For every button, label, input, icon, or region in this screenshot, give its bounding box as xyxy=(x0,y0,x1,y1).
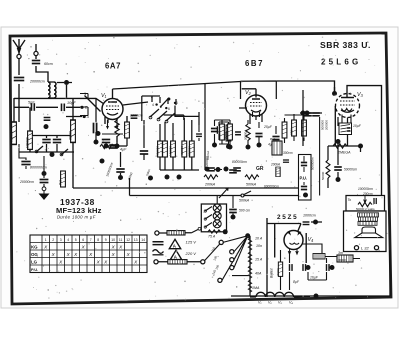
svg-text:2MEGA: 2MEGA xyxy=(337,151,351,155)
svg-text:800000cm: 800000cm xyxy=(232,160,247,164)
svg-text:4: 4 xyxy=(67,238,69,242)
svg-text:6B7: 6B7 xyxy=(245,59,264,68)
svg-text:10000: 10000 xyxy=(226,130,230,139)
svg-text:Ballast: Ballast xyxy=(270,268,274,278)
svg-text:V₁: V₁ xyxy=(101,93,107,99)
svg-text:14: 14 xyxy=(141,238,145,242)
svg-text:11: 11 xyxy=(119,238,123,242)
svg-text:6: 6 xyxy=(176,101,178,105)
svg-text:50000cm: 50000cm xyxy=(344,168,357,172)
svg-text:3m: 3m xyxy=(338,251,343,255)
svg-text:25Z5: 25Z5 xyxy=(277,214,298,221)
svg-text:13: 13 xyxy=(134,238,138,242)
svg-text:1MA: 1MA xyxy=(252,286,260,290)
svg-text:100000: 100000 xyxy=(26,137,30,148)
svg-text:16µF: 16µF xyxy=(310,276,319,280)
svg-text:9: 9 xyxy=(105,238,107,242)
svg-text:V₃: V₃ xyxy=(357,92,364,98)
svg-text:V₄: V₄ xyxy=(308,237,314,243)
svg-text:10000: 10000 xyxy=(218,130,222,139)
svg-text:P.U.: P.U. xyxy=(300,176,308,181)
svg-text:V₃: V₃ xyxy=(278,301,282,305)
svg-text:220 V: 220 V xyxy=(185,251,197,256)
svg-text:12: 12 xyxy=(126,238,130,242)
svg-text:LG: LG xyxy=(31,260,38,265)
svg-text:5: 5 xyxy=(75,238,77,242)
svg-text:3: 3 xyxy=(60,238,62,242)
svg-text:300A: 300A xyxy=(290,128,294,135)
svg-text:Durée 1000 m µF: Durée 1000 m µF xyxy=(57,215,96,220)
svg-text:300000: 300000 xyxy=(10,131,14,142)
svg-text:1000cm: 1000cm xyxy=(303,214,316,218)
svg-text:200000: 200000 xyxy=(325,120,329,130)
svg-text:L 32: L 32 xyxy=(361,246,369,251)
svg-text:10pF: 10pF xyxy=(67,101,76,105)
svg-text:To: To xyxy=(348,198,352,202)
svg-text:10µF: 10µF xyxy=(353,124,362,128)
svg-text:200cm: 200cm xyxy=(362,192,373,196)
svg-text:500 cm: 500 cm xyxy=(239,209,250,213)
svg-text:100000: 100000 xyxy=(169,146,173,156)
svg-text:V₂: V₂ xyxy=(245,90,252,96)
svg-text:400000: 400000 xyxy=(156,146,160,156)
svg-text:20000cm: 20000cm xyxy=(19,180,34,184)
svg-text:Asimut: Asimut xyxy=(206,151,210,160)
svg-text:6A7: 6A7 xyxy=(105,62,121,71)
svg-text:8: 8 xyxy=(97,238,99,242)
svg-text:10n: 10n xyxy=(256,244,262,248)
svg-text:10 A: 10 A xyxy=(255,237,263,241)
svg-text:30000: 30000 xyxy=(338,258,346,262)
svg-text:500000m: 500000m xyxy=(311,157,315,170)
svg-text:5pF: 5pF xyxy=(28,101,35,105)
svg-text:15 A: 15 A xyxy=(255,258,263,262)
svg-text:500kA: 500kA xyxy=(246,183,257,187)
svg-text:50000: 50000 xyxy=(321,171,325,180)
svg-text:40A: 40A xyxy=(255,272,262,276)
svg-text:6: 6 xyxy=(82,238,84,242)
svg-text:V₂: V₂ xyxy=(268,301,272,305)
svg-text:SBR 383 U.: SBR 383 U. xyxy=(320,40,371,50)
svg-text:20000: 20000 xyxy=(276,268,280,276)
svg-text:75 A: 75 A xyxy=(208,235,216,239)
svg-text:60cm: 60cm xyxy=(44,62,53,66)
svg-text:4µF: 4µF xyxy=(120,148,127,152)
svg-text:20000A: 20000A xyxy=(244,130,248,140)
svg-text:2: 2 xyxy=(52,238,54,242)
svg-text:1: 1 xyxy=(45,238,47,242)
svg-text:10: 10 xyxy=(111,238,115,242)
svg-text:300000: 300000 xyxy=(187,146,191,156)
svg-text:125 V: 125 V xyxy=(186,240,197,245)
svg-text:7: 7 xyxy=(90,238,92,242)
svg-text:200kA: 200kA xyxy=(270,163,280,167)
svg-text:200kA: 200kA xyxy=(204,183,216,187)
svg-text:25L6G: 25L6G xyxy=(321,58,361,67)
svg-text:500kA: 500kA xyxy=(239,199,250,203)
svg-text:V₄: V₄ xyxy=(289,301,293,305)
svg-text:1200cm: 1200cm xyxy=(130,114,143,118)
svg-text:100000cm: 100000cm xyxy=(358,187,373,191)
svg-text:Bob: Bob xyxy=(270,137,276,141)
svg-text:5: 5 xyxy=(160,105,162,109)
svg-text:600000cm: 600000cm xyxy=(264,185,279,189)
svg-text:300cm: 300cm xyxy=(283,151,293,155)
svg-text:30000: 30000 xyxy=(69,131,73,140)
svg-text:P.U.: P.U. xyxy=(31,267,38,272)
svg-text:400000: 400000 xyxy=(180,146,184,156)
svg-text:KG: KG xyxy=(31,245,38,250)
svg-text:20000cm: 20000cm xyxy=(29,80,45,84)
svg-text:GR: GR xyxy=(256,166,264,172)
svg-text:6: 6 xyxy=(168,107,170,111)
svg-text:4: 4 xyxy=(152,103,154,107)
svg-text:a: a xyxy=(151,95,153,99)
svg-text:25µF: 25µF xyxy=(263,125,273,129)
svg-text:Pot: Pot xyxy=(59,180,63,185)
